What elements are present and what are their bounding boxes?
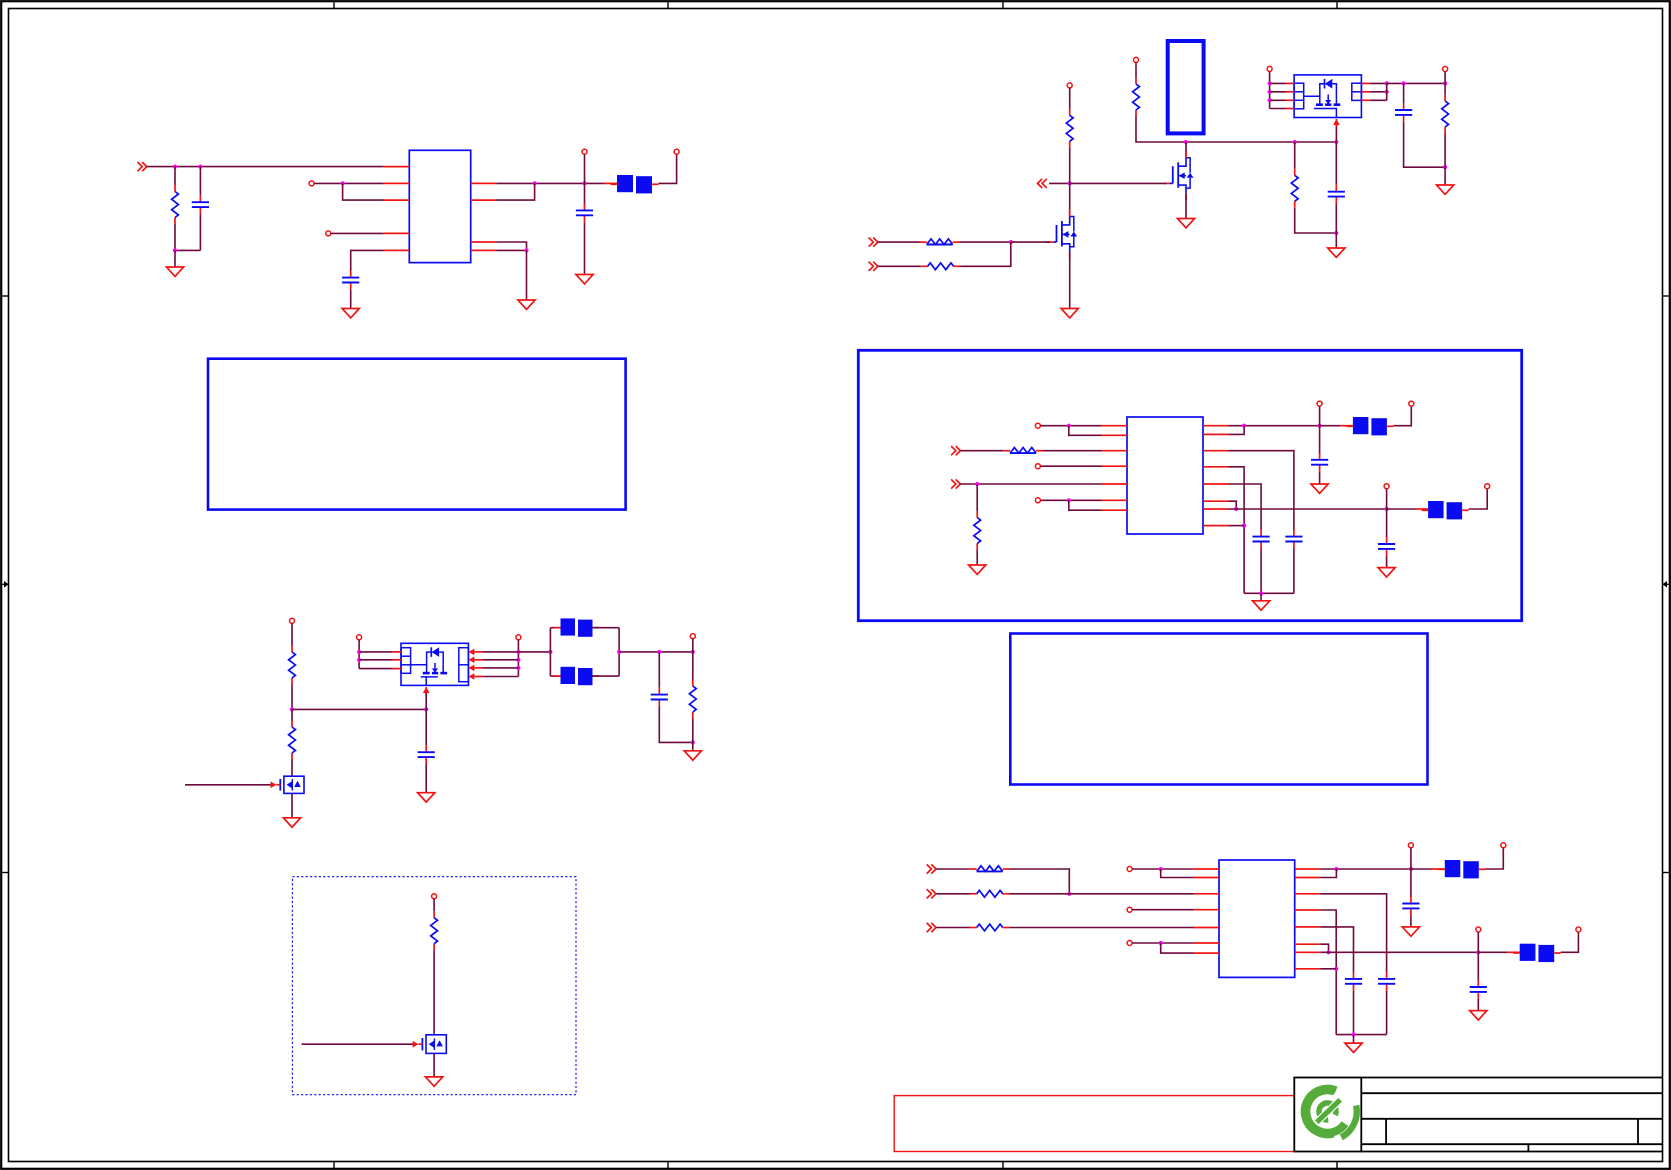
wire E in2 <box>960 483 1101 485</box>
junction <box>516 650 520 654</box>
pin stub <box>471 241 497 243</box>
wire U4 in <box>1041 425 1102 427</box>
module U3 internal mosfet <box>421 663 447 686</box>
wire F in2b <box>1010 893 1194 895</box>
capacitor C15 <box>1470 980 1487 999</box>
ground <box>1470 1011 1487 1020</box>
wire U2 rpin <box>1370 91 1386 93</box>
port chevron >> <box>869 238 878 247</box>
pin stub <box>1203 425 1229 427</box>
wire C4 bottom <box>1335 204 1337 233</box>
wire Q4 gate <box>302 1043 413 1045</box>
wire gnd rail E <box>1244 592 1294 594</box>
ground <box>166 267 183 276</box>
pin stub U3 bottom <box>425 687 427 695</box>
pin stub <box>1286 108 1294 110</box>
ground <box>1253 601 1270 610</box>
wire out rail C <box>619 651 693 653</box>
zone tick top <box>333 2 335 8</box>
wire U1 EN <box>314 182 384 184</box>
wire port stub E1 <box>1319 406 1321 426</box>
ground <box>1061 309 1078 318</box>
pin stub <box>1295 943 1321 945</box>
wire U5 pin4 <box>1132 909 1193 911</box>
wire U4 p3r <box>1229 451 1294 530</box>
pin stub <box>1507 951 1520 953</box>
wire to ground E <box>1260 593 1262 600</box>
port (open circle) <box>1035 423 1040 428</box>
pin stub U2 bottom <box>1335 119 1337 127</box>
pin stub <box>604 182 618 184</box>
junction <box>424 707 428 711</box>
wire U3 rpin <box>483 659 518 661</box>
resistor R7 <box>1442 95 1449 134</box>
pin stub <box>1194 909 1220 911</box>
capacitor C6 <box>651 688 668 707</box>
junction <box>617 650 621 654</box>
wire R6 bottom <box>1295 208 1337 233</box>
wire to FB7 <box>1478 951 1507 953</box>
wire E in1 <box>960 450 1003 452</box>
title block line 5 <box>1361 1151 1662 1153</box>
port chevron >> <box>869 262 878 271</box>
junction <box>533 181 537 185</box>
wire R10 bottom <box>692 719 694 743</box>
junction <box>1067 424 1071 428</box>
wire C10 top <box>1386 509 1388 538</box>
zone tick left <box>2 872 8 874</box>
junction <box>1443 165 1447 169</box>
wire FB2 out <box>593 627 620 629</box>
junction <box>1242 424 1246 428</box>
port (open circle) <box>1035 464 1040 469</box>
title block logo cell <box>1294 1078 1361 1152</box>
port (open circle) <box>582 149 587 154</box>
wire FB5 out <box>1469 489 1488 509</box>
junction <box>341 181 345 185</box>
wire U4 in jog <box>1069 426 1102 436</box>
port (open circle) <box>1501 843 1506 848</box>
pin arrow <box>468 673 474 680</box>
junction <box>1385 90 1389 94</box>
port (open circle) <box>1035 498 1040 503</box>
junction <box>1159 867 1163 871</box>
pin stub <box>1194 877 1220 879</box>
junction <box>1385 507 1389 511</box>
port chevron >> <box>138 162 147 171</box>
wire net VIN-A <box>147 166 384 168</box>
pin stub <box>1102 465 1128 467</box>
resistor R8 <box>289 646 296 685</box>
module U3 pads right <box>459 648 469 682</box>
ic U1 <box>409 150 470 262</box>
pin stub <box>1194 952 1220 954</box>
resistor R9 <box>289 721 296 760</box>
wire FB3 out <box>593 675 620 677</box>
ground <box>1328 248 1345 257</box>
wire R2 to rail <box>1136 117 1336 143</box>
note box 2 <box>1010 634 1427 785</box>
junction <box>1293 140 1297 144</box>
pin stub <box>1432 868 1445 870</box>
port chevron >> <box>927 889 936 898</box>
wire C6 top <box>658 652 660 688</box>
junction <box>357 650 361 654</box>
ground <box>1311 484 1328 493</box>
junction <box>290 707 294 711</box>
wire C15 top <box>1477 952 1479 980</box>
pin arrow <box>468 657 474 664</box>
junction <box>1351 1033 1355 1037</box>
ground <box>1402 927 1419 936</box>
wire FB7 out <box>1561 932 1579 952</box>
capacitor C13 <box>1378 972 1395 991</box>
wire U1 EN jog <box>343 183 384 200</box>
zone tick bottom <box>333 1162 335 1169</box>
resistor R5 <box>921 263 961 270</box>
junction <box>975 482 979 486</box>
port (open circle) <box>1384 484 1389 489</box>
resistor R13 <box>974 511 981 550</box>
wire U5 out1 <box>1320 868 1411 870</box>
wire U5 p5r jog <box>1320 944 1328 952</box>
wire C7 top <box>425 709 427 745</box>
wire C11 bottom <box>1319 472 1321 484</box>
wire U3 right vert <box>517 640 519 677</box>
wire U2 right vert <box>1386 83 1388 100</box>
wire to ground A1 <box>174 250 176 266</box>
ferrite bead FB5 <box>1422 501 1469 519</box>
module U3 internal diode <box>411 647 444 665</box>
wire R13 top <box>976 484 978 511</box>
pin stub <box>1295 968 1321 970</box>
wire port stub E2 <box>1386 489 1388 509</box>
wire mid rail <box>292 708 426 710</box>
ground <box>1378 568 1395 577</box>
port (open circle) <box>674 149 679 154</box>
port (open circle) <box>309 181 314 186</box>
wire U5 pin6 <box>1132 942 1193 944</box>
junction <box>1268 98 1272 102</box>
wire R8 bottom <box>291 685 293 710</box>
wire U2 lpin <box>1270 108 1286 110</box>
zone tick left <box>2 295 8 297</box>
wire FB2 in <box>550 627 560 629</box>
module U3 pads left <box>401 648 411 674</box>
wire U1 gnd1 <box>496 242 526 250</box>
pin stub <box>1295 909 1321 911</box>
junction <box>524 248 528 252</box>
pin stub <box>1361 91 1370 93</box>
pin stub <box>1295 951 1321 953</box>
pin stub <box>393 668 402 670</box>
wire C8 bottom <box>1293 549 1295 594</box>
wire Q3 source <box>291 793 293 817</box>
resistor R6 <box>1291 169 1298 208</box>
resistor R2 <box>1133 78 1140 117</box>
pin stub <box>474 659 483 661</box>
wire R3 bottom <box>1069 148 1071 184</box>
port chevron >> <box>927 864 936 873</box>
wire U4 out1 <box>1229 425 1320 427</box>
wire F in3 <box>936 927 970 929</box>
wire Q2 source <box>1185 193 1187 218</box>
wire in2 <box>878 265 921 267</box>
capacitor C8 <box>1285 530 1302 549</box>
wire U3 bottom pin <box>425 693 427 709</box>
pin stub <box>471 199 497 201</box>
wire to ground B2 <box>1444 167 1446 185</box>
wire U4 out lower <box>1229 508 1387 510</box>
wire Q4 source <box>433 1053 435 1076</box>
ferrite bead FB2 <box>554 618 599 636</box>
ferrite bead FB7 <box>1513 944 1561 962</box>
wire C4 top <box>1335 142 1337 185</box>
wire C13 bottom <box>1386 991 1388 1035</box>
ground <box>969 565 986 574</box>
wire R6 top <box>1294 142 1296 169</box>
resistor R4 <box>920 239 960 245</box>
pin stub <box>1203 500 1229 502</box>
capacitor C3 <box>576 203 593 222</box>
wire U5 out1 jog <box>1320 869 1336 878</box>
ground <box>418 793 435 802</box>
wire to ground C <box>692 742 694 750</box>
pin arrow <box>423 687 430 693</box>
wire C11 top <box>1319 426 1321 454</box>
zone tick bottom <box>1336 1162 1338 1169</box>
pin stub <box>1286 99 1294 101</box>
ground <box>1437 185 1454 194</box>
junction <box>691 650 695 654</box>
wire C14 bottom <box>1353 991 1355 1035</box>
pin stub <box>1286 82 1294 84</box>
dc-dc module outline <box>1168 41 1204 133</box>
wire R7 top <box>1444 83 1446 94</box>
junction <box>1334 140 1338 144</box>
pin stub <box>1102 450 1128 452</box>
wire port stub C <box>692 639 694 652</box>
wire U3 lpin <box>359 651 392 653</box>
title block top line <box>1361 1077 1662 1079</box>
resistor R12 <box>1003 448 1043 454</box>
junction <box>1334 231 1338 235</box>
resistor R16 <box>970 924 1010 931</box>
wire U5 in jog <box>1161 869 1194 878</box>
resistor R3 <box>1066 109 1073 148</box>
pin stub <box>1295 926 1321 928</box>
pin arrow <box>1333 119 1340 125</box>
junction <box>357 658 361 662</box>
pin stub <box>1203 483 1229 485</box>
pin stub <box>1295 868 1321 870</box>
wire C9 bottom <box>1260 549 1262 594</box>
wire C5 top <box>1403 83 1405 103</box>
wire C1 bottom <box>199 214 201 250</box>
pin stub <box>474 676 483 678</box>
port (open circle) <box>1408 843 1413 848</box>
pin stub <box>1203 466 1229 468</box>
note box dashed <box>292 877 576 1095</box>
wire port stub <box>1444 72 1446 84</box>
pin stub <box>384 232 410 234</box>
ground <box>518 300 535 309</box>
wire FB left vert <box>549 628 551 676</box>
center arrow left <box>2 581 8 588</box>
circuit group box <box>858 350 1521 620</box>
wire R2 top <box>1135 63 1137 78</box>
resistor R1 <box>172 185 179 224</box>
wire Q2 drain <box>1185 142 1187 158</box>
pin stub <box>384 199 410 201</box>
junction <box>1259 591 1263 595</box>
wire U4 out2 jog <box>1229 426 1245 435</box>
wire U4 p8r <box>1229 525 1245 527</box>
ferrite bead FB3 <box>554 667 599 685</box>
port (open circle) <box>357 635 362 640</box>
junction <box>516 666 520 670</box>
ic U5 <box>1219 860 1295 977</box>
wire U4 p6r jog <box>1229 501 1237 509</box>
wire C12 bottom <box>1410 915 1412 926</box>
pin stub <box>1286 91 1294 93</box>
note box 1 <box>208 359 626 510</box>
junction <box>516 658 520 662</box>
port (open circle) <box>1576 927 1581 932</box>
center arrow right <box>1663 581 1669 588</box>
capacitor C2 <box>342 271 359 290</box>
wire U5 in <box>1132 868 1193 870</box>
wire U1 gnd2 <box>496 249 526 251</box>
pin stub <box>1361 99 1370 101</box>
junction <box>173 248 177 252</box>
port (open circle) <box>1134 57 1139 62</box>
zone tick bottom <box>1002 1162 1004 1169</box>
pin stub <box>1102 425 1128 427</box>
wire Q1 drain <box>1069 183 1071 222</box>
port (open circle) <box>1267 66 1272 71</box>
wire port stub F1 <box>1410 848 1412 869</box>
wire F in3b <box>1010 927 1194 929</box>
wire in1 <box>878 241 920 243</box>
capacitor C9 <box>1253 530 1270 549</box>
wire C7 bottom <box>425 764 427 792</box>
port (open circle) <box>690 634 695 639</box>
junction <box>582 181 586 185</box>
logo <box>1306 1084 1357 1138</box>
wire R1 bottom <box>174 224 176 250</box>
junction <box>1067 498 1071 502</box>
zone tick top <box>1002 2 1004 8</box>
junction <box>1242 524 1246 528</box>
junction <box>657 650 661 654</box>
port (open circle) <box>1317 401 1322 406</box>
wire FB right vert <box>618 628 620 676</box>
wire port stub F2 <box>1477 932 1479 952</box>
capacitor C7 <box>418 745 435 764</box>
pin stub <box>474 651 483 653</box>
wire F in2 <box>936 893 970 895</box>
wire U5 out lower <box>1320 951 1478 953</box>
pin stub <box>1194 868 1220 870</box>
module U2 pads left <box>1294 83 1304 109</box>
capacitor C4 <box>1328 185 1345 204</box>
junction <box>1334 967 1338 971</box>
port (open circle) <box>1127 867 1132 872</box>
port chevron >> <box>927 923 936 932</box>
junction <box>1268 90 1272 94</box>
port (open circle) <box>1409 401 1414 406</box>
pin stub <box>1340 425 1353 427</box>
pin stub <box>1361 82 1370 84</box>
pin stub <box>1295 877 1321 879</box>
ferrite bead FB4 <box>1346 417 1393 435</box>
junction <box>1159 941 1163 945</box>
module U2 internal diode <box>1304 79 1337 97</box>
port (open circle) <box>516 635 521 640</box>
wire R13 bottom <box>976 550 978 565</box>
wire U5 p2r <box>1320 894 1386 973</box>
pin stub <box>1203 525 1229 527</box>
pin stub <box>1194 893 1220 895</box>
wire C15 bottom <box>1477 999 1479 1010</box>
zone tick right <box>1663 295 1669 297</box>
wire U5 p3r <box>1320 910 1336 1035</box>
capacitor C1 <box>192 195 209 214</box>
pin arrow <box>468 665 474 672</box>
wire U1 pin5 to C2 <box>351 250 384 271</box>
pin arrow <box>413 1041 419 1048</box>
wire C1 top <box>199 167 201 196</box>
wire to ground B1 <box>1335 233 1337 248</box>
wire U5 p4r <box>1320 927 1353 973</box>
wire C6 bottom <box>659 707 693 743</box>
wire to ground A2 <box>526 250 528 299</box>
junction <box>1068 181 1072 185</box>
pin stub <box>1102 483 1128 485</box>
wire port to out <box>584 154 586 183</box>
wire R7 bottom <box>1444 134 1446 168</box>
module U3 body <box>401 643 468 685</box>
junction <box>1234 507 1238 511</box>
wire U2 bottom pin <box>1335 119 1337 142</box>
resistor R10 <box>689 680 696 719</box>
wire U4 pin6 jog <box>1069 500 1102 510</box>
wire out rail B <box>1387 82 1445 84</box>
wire U4 p5r <box>1229 484 1262 530</box>
title block line 4 <box>1361 1143 1662 1145</box>
resistor R11 <box>431 911 438 950</box>
wire C10 bottom <box>1386 556 1388 567</box>
junction <box>1326 950 1330 954</box>
wire in2b <box>960 242 1010 266</box>
wire to FB junction <box>518 651 550 653</box>
pin stub <box>384 249 410 251</box>
zone tick top <box>1336 2 1338 8</box>
capacitor C10 <box>1378 537 1395 556</box>
wire U3 rpin <box>483 651 518 653</box>
title block divider v2 <box>1637 1119 1639 1144</box>
pin stub <box>474 667 483 669</box>
wire to FB5 <box>1387 508 1415 510</box>
wire U3 left vert <box>358 640 360 669</box>
junction <box>548 650 552 654</box>
junction <box>1318 424 1322 428</box>
port (open circle) <box>1485 484 1490 489</box>
note box red <box>894 1096 1294 1152</box>
wire gate net <box>1049 182 1070 184</box>
pin stub <box>1295 893 1321 895</box>
